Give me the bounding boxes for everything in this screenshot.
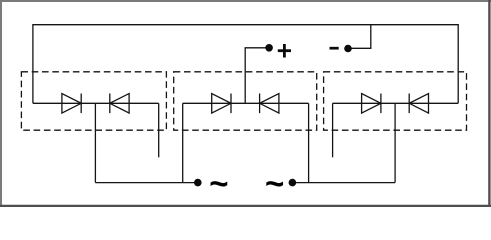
wire: DC minus top bus (left riser, top run, right riser) [33,25,458,104]
wire: M1 diode row [33,102,159,104]
diode D1 (M1 left, anode to minus bus) [62,94,81,114]
wire: M3 center tap down to AC2 [394,103,396,182]
diode D4 (M2 right, anode to AC2) [260,94,279,114]
terminal dot: minus [344,45,352,53]
label: tilde AC2 [265,165,284,203]
wire: M2 right end down to AC2 [308,103,310,182]
label: tilde AC1 [209,165,228,203]
wire: M2 center tap up to plus terminal [245,48,269,104]
diode D2 (M1 right, anode to stub) [110,94,129,114]
wire: M3 left stub (unconnected) [332,103,334,157]
wire: M3 diode row [333,102,459,104]
wire: minus terminal lead to top bus [348,25,371,49]
diode D6 (M3 right, anode to minus bus) [409,94,428,114]
wire: M2 diode row [183,102,309,104]
label: plus sign [278,44,291,58]
terminal dot: AC1 (~) [194,179,202,187]
module M2 outline (dashed) [174,72,317,130]
module M3 outline (dashed) [324,72,467,130]
diode D3 (M2 left, anode to AC1) [212,94,231,114]
wire: M2 left end down to AC1 [182,103,184,182]
wire: AC1 bottom run [95,182,197,184]
wire: M1 center tap down to AC1 [94,103,96,182]
module M1 outline (dashed) [21,72,166,130]
terminal dot: plus [265,44,273,52]
wire: M1 right stub (unconnected) [158,103,160,157]
diode D5 (M3 left, anode to stub) [362,94,381,114]
wire: AC2 bottom run [292,182,395,184]
label: minus sign [330,47,339,50]
terminal dot: AC2 (~) [289,179,297,187]
